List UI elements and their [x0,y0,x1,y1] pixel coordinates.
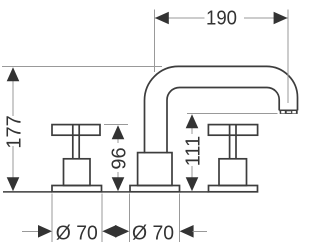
spout inner contour [167,88,279,154]
mounting deck baseline [3,191,209,193]
dim 190 arrow right [274,12,288,25]
right handle body [219,159,247,186]
dim 177 arrow up [7,67,20,81]
dim 111 extension line top [187,112,278,114]
dia 70 left arrow [38,225,52,238]
right handle stem [230,125,236,159]
dim 111 arrow up [186,114,199,128]
dim 96 arrow down [112,177,125,191]
svg-text:Ø 70: Ø 70 [56,223,98,245]
left handle body [64,159,91,186]
left handle flange [52,186,102,192]
dia 70 right tail [193,230,207,232]
left handle stem [73,125,79,159]
dim 190 extension line left (spout axis) [153,10,155,73]
dim 96 line [117,126,119,190]
right handle cross bar [208,125,257,136]
spout base body [138,153,172,186]
dim 190 extension line right (outlet axis) [287,10,289,104]
svg-text:190: 190 [206,8,237,30]
spout outer contour [145,66,298,153]
dia 70 left tail [22,230,40,232]
dim 177 extension line top [2,65,162,67]
dia 70 middle diamond arrows [102,225,116,238]
right handle flange [209,186,258,192]
left handle cross bar [52,125,100,136]
dim 177 arrow down [7,177,20,191]
svg-text:177: 177 [3,115,25,148]
svg-text:111: 111 [182,136,204,166]
spout base flange [130,186,180,192]
aerator [280,110,298,114]
dim 190 arrow left [155,12,169,25]
svg-text:Ø 70: Ø 70 [132,223,174,245]
dim 177 line [12,68,14,190]
dim 111 arrow down [186,177,199,191]
dia 70 right arrow [180,225,194,238]
dim 96 arrow up [112,125,125,139]
svg-text:96: 96 [108,147,130,169]
dia 70 left extension lines [52,194,102,243]
dim 190 line [155,17,288,19]
dia 70 right extension lines [130,194,180,243]
dim 96 extension line top [104,124,128,126]
dim 111 line [191,115,193,190]
spout outlet bottom [279,109,297,111]
